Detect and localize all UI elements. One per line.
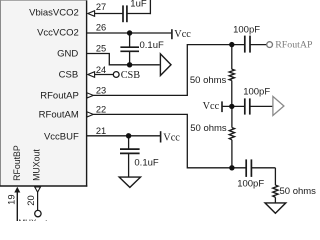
- svg-text:MUXout: MUXout: [31, 149, 41, 181]
- svg-text:GND: GND: [57, 49, 78, 60]
- svg-text:21: 21: [96, 126, 106, 136]
- svg-text:20: 20: [25, 195, 36, 205]
- svg-text:22: 22: [96, 105, 106, 115]
- svg-text:Vcc: Vcc: [174, 29, 191, 40]
- svg-text:50 ohms: 50 ohms: [190, 75, 227, 86]
- svg-text:100pF: 100pF: [243, 86, 270, 97]
- svg-text:Vcc: Vcc: [203, 101, 220, 112]
- svg-text:50 ohms: 50 ohms: [280, 186, 317, 197]
- svg-text:RFoutBP: RFoutBP: [12, 145, 22, 181]
- svg-text:Vcc: Vcc: [163, 132, 180, 143]
- svg-text:24: 24: [96, 65, 106, 75]
- svg-text:27: 27: [96, 2, 106, 12]
- svg-text:RFoutAM: RFoutAM: [39, 109, 79, 120]
- svg-text:23: 23: [96, 86, 106, 96]
- svg-text:25: 25: [96, 43, 106, 53]
- svg-text:100pF: 100pF: [237, 179, 264, 190]
- svg-text:100pF: 100pF: [233, 25, 260, 36]
- svg-text:19: 19: [5, 194, 16, 204]
- svg-text:1uF: 1uF: [130, 0, 147, 9]
- svg-text:0.1uF: 0.1uF: [134, 158, 158, 169]
- svg-text:0.1uF: 0.1uF: [140, 40, 164, 51]
- svg-text:RFoutAP: RFoutAP: [40, 90, 79, 101]
- svg-text:50 ohms: 50 ohms: [190, 123, 227, 134]
- svg-text:CSB: CSB: [59, 69, 79, 80]
- svg-text:26: 26: [96, 22, 106, 32]
- svg-text:VccBUF: VccBUF: [44, 131, 79, 142]
- svg-text:RFoutAP: RFoutAP: [275, 40, 313, 51]
- svg-text:VbiasVCO2: VbiasVCO2: [29, 7, 79, 18]
- svg-text:VccVCO2: VccVCO2: [37, 28, 79, 39]
- svg-text:MUXout: MUXout: [19, 218, 49, 221]
- svg-text:CSB: CSB: [121, 70, 141, 81]
